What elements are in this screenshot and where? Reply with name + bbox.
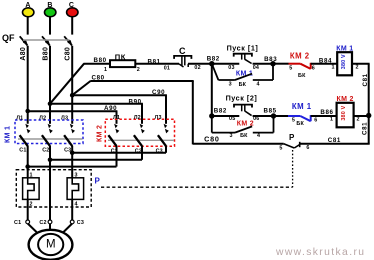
svg-text:В85: В85 [264,108,277,115]
wire coil KM1 to right rail [352,63,370,65]
wire KM1 pole C output down [71,146,73,178]
start button Пуск [1] [227,43,260,71]
motor M [29,230,73,260]
svg-text:QF: QF [2,33,15,43]
svg-text:С80: С80 [65,47,72,61]
lamp A (yellow) [23,2,34,17]
node on phase A (A90 tap) [25,109,30,114]
wire KM2 C3 crossover to phase C [72,146,166,153]
svg-text:БК: БК [239,82,247,88]
svg-text:С81: С81 [362,122,369,135]
svg-text:С2: С2 [42,148,49,154]
svg-text:В80: В80 [43,47,50,61]
KM2 contact pole 2 [134,115,145,155]
svg-text:1: 1 [330,117,333,123]
svg-text:С81: С81 [328,137,341,144]
KM2 contact pole 3 [155,115,169,155]
node crossover on phase A [25,164,30,169]
wire start2 to B85 [253,115,274,117]
svg-text:В86: В86 [320,109,333,116]
svg-text:В83: В83 [264,56,277,63]
wire C80 vertical down to control rail [192,81,194,144]
svg-text:01: 01 [164,66,170,72]
svg-text:4: 4 [75,202,78,208]
thermal heater element 1 [23,173,39,208]
wire heater1 to motor terminal C1 [27,199,29,222]
svg-text:1: 1 [332,65,335,71]
svg-text:03: 03 [228,65,234,71]
svg-text:БК: БК [240,133,248,139]
svg-text:С90: С90 [152,89,165,96]
svg-text:3: 3 [75,173,78,179]
svg-text:БК: БК [298,73,306,79]
svg-text:С80: С80 [204,135,220,144]
wire heater2 to motor terminal C3 [71,199,73,222]
breaker QF linkage bar [23,39,70,41]
wire B80 tap diagonal to control [50,64,84,104]
node right rail row2 [366,113,371,118]
KM2 aux contact bypass (BK 3-4) row2 [212,116,274,139]
svg-text:А80: А80 [20,47,27,61]
svg-text:2: 2 [30,202,33,208]
wire start1 to B83 [253,63,273,65]
node on phase B (B80 tap) [48,101,53,106]
KM1 contact pole 1 [16,115,30,153]
svg-text:С2: С2 [39,220,46,226]
svg-text:Л3: Л3 [61,115,68,121]
svg-text:6: 6 [306,145,309,151]
svg-text:5: 5 [279,146,282,152]
KM1 linkage bar [18,138,83,140]
wire A90 horizontal [28,110,118,112]
svg-text:С1: С1 [19,148,26,154]
svg-text:КМ 1: КМ 1 [5,126,12,143]
svg-text:5: 5 [289,65,292,71]
svg-text:С: С [179,46,186,56]
node B82 [207,56,220,67]
lamp B (green) [45,2,56,17]
svg-text:ПК: ПК [115,53,126,62]
svg-text:6: 6 [314,118,317,124]
stop button C [164,46,201,72]
svg-text:www.skrutka.ru: www.skrutka.ru [275,247,365,258]
node crossover on phase B [48,158,53,163]
wire coil KM2 to right rail [354,115,370,117]
wire lamp A to QF [27,17,29,35]
svg-text:3: 3 [229,82,232,88]
wire KM1 pole B output down [49,146,51,222]
thermal heater element 2 [67,173,84,208]
svg-text:Л2: Л2 [134,115,141,121]
svg-text:P: P [95,177,101,186]
wire lamp B to QF [49,17,51,35]
wire to coil KM1 [311,63,338,65]
dashed linkage P to control contact [101,150,293,187]
wire C80 horizontal [90,80,193,82]
svg-text:С81: С81 [362,73,369,86]
svg-text:С1: С1 [14,220,21,226]
svg-text:3: 3 [230,133,233,139]
svg-text:6: 6 [312,65,315,71]
KM1 contact pole 2 [39,115,53,153]
svg-text:КМ 1: КМ 1 [292,102,312,111]
wire KM2 C2 crossover to phase B [50,146,142,160]
svg-text:КМ 2: КМ 2 [97,125,104,142]
svg-text:БК: БК [296,121,304,127]
wire stop button to B82 [188,63,212,65]
svg-text:Пуск [2]: Пуск [2] [226,93,258,102]
coil KM2 [330,96,360,127]
KM1 aux contact bypass (BK 3-4) [212,64,273,88]
fuse PK [104,53,140,73]
svg-text:5: 5 [292,118,295,124]
wire terminal C3 to motor [62,224,72,234]
svg-text:380 V: 380 V [341,54,347,69]
svg-text:Пуск [1]: Пуск [1] [227,43,259,52]
KM2 linkage bar [108,139,174,141]
svg-text:02: 02 [194,65,200,71]
svg-text:Л3: Л3 [155,115,162,121]
wire B80 horizontal to fuse [84,63,111,65]
wire B90 down to KM2 L2 [141,104,143,124]
svg-text:В81: В81 [148,58,161,65]
wire KM2 C1 crossover to phase A [28,146,117,167]
svg-text:05: 05 [229,116,235,122]
KM1 contact pole 3 [61,115,75,153]
svg-text:B: B [47,2,52,9]
svg-text:1: 1 [30,173,33,179]
breaker QF pole C [64,36,72,45]
start button Пуск [2] [226,93,260,121]
svg-text:2: 2 [356,65,359,71]
svg-text:P: P [289,133,295,142]
svg-text:4: 4 [257,82,260,88]
svg-text:В82: В82 [207,56,220,63]
node on phase C (C80/C90 tap) [70,93,75,98]
svg-text:Л1: Л1 [16,115,23,121]
thermal contact P [279,133,309,152]
svg-text:В80: В80 [94,57,107,64]
node B83 [264,56,277,66]
wire phase C (C80) [65,46,73,124]
wire to start button 2 [212,115,240,117]
KM2 NC interlock contact (red) [273,51,315,79]
breaker QF pole A [20,36,28,45]
wire B82 to start button 1 [212,63,240,65]
svg-text:КМ 2: КМ 2 [290,51,310,60]
wire C80 diagonal [72,81,90,95]
right rail C81 [362,64,369,145]
svg-text:Л2: Л2 [39,115,46,121]
wire KM1 pole A output down [27,146,29,178]
svg-text:В82: В82 [214,108,227,115]
svg-text:C: C [69,2,74,9]
svg-text:В84: В84 [319,57,332,64]
control bottom rail C80 [193,143,284,145]
node B85 [264,108,277,119]
svg-text:2: 2 [137,67,140,73]
svg-text:С80: С80 [92,75,105,82]
wire to coil KM2 [311,115,337,117]
thermal relay P box [16,170,91,207]
wire A90 down to KM2 L1 [116,111,118,124]
contactor KM2 box [105,119,174,146]
svg-text:В90: В90 [129,98,142,105]
coil KM1 [332,45,359,75]
wire terminal C1 to motor [28,224,38,234]
wire phase A (A80) [20,46,28,124]
svg-text:1: 1 [104,67,107,73]
wire C90 down to KM2 L3 [165,95,167,124]
node crossover on phase C [70,151,75,156]
breaker QF pole B [42,36,50,45]
svg-text:Л1: Л1 [113,115,120,121]
contactor KM1 box [15,120,83,144]
KM2 contact pole 1 [108,115,120,155]
svg-text:2: 2 [357,117,360,123]
motor terminal C2 [39,220,51,226]
svg-text:A: A [25,2,30,9]
svg-text:04: 04 [253,65,259,71]
KM1 NC interlock contact (blue) [274,102,318,127]
lamp C (red) [67,2,78,17]
svg-text:380 V: 380 V [341,105,347,120]
svg-text:С3: С3 [77,220,84,226]
wire B82 down to row 2 [211,64,213,116]
wire phase B (B80) [43,46,51,124]
node B82 row2 [209,108,227,119]
motor terminal C1 [14,220,30,226]
wire B90 horizontal [50,103,143,105]
wire B81 fuse to stop button [135,63,179,65]
motor terminal C3 [70,220,84,226]
svg-text:М: М [46,239,56,251]
wire terminal C2 to motor [49,224,51,232]
svg-text:4: 4 [257,133,260,139]
wire lamp C to QF [71,17,73,35]
svg-text:А90: А90 [104,105,117,112]
control rail right segment [300,143,370,145]
wire C90 horizontal [72,94,167,96]
